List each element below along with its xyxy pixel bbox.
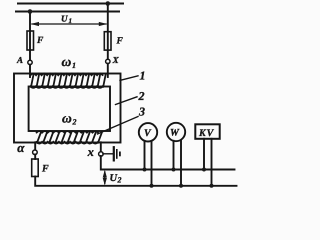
wire from X terminal into winding w1 <box>107 64 109 77</box>
svg-text:F: F <box>36 36 44 46</box>
svg-text:x: x <box>87 145 94 159</box>
junction dots on bus B2 <box>150 184 154 188</box>
svg-text:α: α <box>17 140 25 155</box>
wire from a to fuse F3 <box>34 154 36 159</box>
terminal X circle <box>106 59 110 63</box>
junction dots on bus B1 <box>143 168 147 172</box>
wattmeter W legs <box>173 141 175 170</box>
svg-text:F: F <box>116 37 124 47</box>
terminal x circle <box>99 152 104 157</box>
svg-text:2: 2 <box>72 117 77 126</box>
winding w2 (secondary) coil band <box>37 131 103 143</box>
bus line L1 (top supply line) <box>18 3 123 5</box>
terminal A circle <box>28 60 32 64</box>
leader line to label 1 <box>120 76 138 81</box>
svg-text:ω: ω <box>62 110 72 125</box>
dimension arrow U2 (double-headed, vertical) <box>104 172 106 184</box>
voltmeter V circle <box>139 123 157 141</box>
svg-text:1: 1 <box>140 68 146 82</box>
wire from winding w2 to terminal a <box>34 142 36 150</box>
svg-text:W: W <box>170 128 180 139</box>
wire right drop from L1 to fuse F (right) <box>107 4 109 60</box>
svg-text:1: 1 <box>72 61 76 70</box>
fuse F3 (in a lead) <box>32 159 39 177</box>
wire from A terminal into winding w1 <box>29 65 31 77</box>
winding w1 (primary) coil band <box>31 74 106 88</box>
wire from x down and right: bottom bus B1 <box>101 156 235 170</box>
svg-text:1: 1 <box>69 17 73 25</box>
kilovoltmeter KV legs <box>203 139 205 170</box>
svg-text:U: U <box>61 14 68 24</box>
svg-text:KV: KV <box>198 128 215 139</box>
voltmeter V legs <box>144 141 146 170</box>
junction dot on L2 at left drop <box>28 9 33 14</box>
dimension arrow U1 (double-headed) <box>32 23 106 25</box>
svg-text:2: 2 <box>117 176 122 185</box>
transformer tank outer rectangle <box>14 74 121 143</box>
wire left drop from L2 to fuse F (left) <box>29 12 31 61</box>
leader line to label 2 <box>116 97 138 105</box>
svg-text:2: 2 <box>138 89 145 103</box>
svg-text:A: A <box>16 55 23 65</box>
junction dot on L1 at right drop <box>106 1 111 6</box>
kilovoltmeter KV rectangle <box>195 124 219 139</box>
leader line to label 3 <box>98 117 139 135</box>
svg-text:X: X <box>112 55 120 65</box>
svg-text:ω: ω <box>62 54 72 69</box>
terminal a circle <box>33 150 38 155</box>
svg-text:F: F <box>41 164 49 175</box>
ground symbol bars <box>113 147 115 160</box>
wattmeter W circle <box>167 123 185 141</box>
transformer core inner rectangle <box>29 87 110 132</box>
bus line L2 (second supply line) <box>16 11 119 13</box>
fuse F1 (left, in A lead) <box>27 31 34 50</box>
wire from winding w2 to terminal x <box>100 142 102 151</box>
ground wire from terminal x <box>103 153 113 155</box>
fuse F2 (right, in X lead) <box>104 32 111 50</box>
wire from F3 down and right to bottom bus B2 <box>35 177 236 186</box>
svg-text:3: 3 <box>138 105 145 119</box>
